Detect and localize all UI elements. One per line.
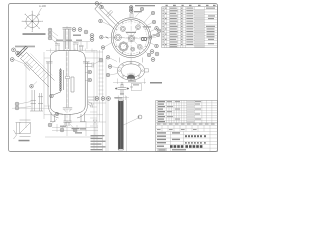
dimension tick ladder right [99, 62, 104, 94]
gasket strip leader [124, 118, 139, 125]
top view rim bolt dots [114, 20, 149, 55]
head tangent reference line [46, 49, 97, 54]
chute hatch [23, 55, 49, 81]
title block upper row rules [156, 103, 218, 121]
leader lines vessel [14, 31, 100, 129]
chute vertical extension line [25, 61, 27, 128]
vessel centerline [66, 26, 68, 127]
detail A plate [14, 120, 31, 139]
parts list material cells [195, 10, 204, 48]
rosette caption text [23, 33, 46, 35]
note text line2 [15, 46, 35, 48]
elevation dimension balloons bottom [95, 97, 110, 101]
parts list header labels above grid [166, 5, 216, 6]
parts list name text smudges [170, 8, 178, 48]
top dimension line [54, 31, 90, 49]
top view top nozzle balloons [130, 6, 133, 13]
svg-text:A-100: A-100 [39, 4, 46, 8]
top nozzle stem [130, 14, 133, 18]
flange detail B ellipses [117, 61, 144, 80]
parts list qty smudges [162, 8, 182, 46]
company name blocks [170, 145, 202, 148]
top nozzle N1 [55, 44, 60, 51]
rosette arrow tips [32, 21, 33, 22]
top view dimension ticks left [106, 36, 109, 39]
dimension text smudges vessel [56, 35, 86, 134]
label box circle [131, 86, 133, 88]
gasket strip top dimension [114, 96, 129, 101]
secondary number digits [185, 142, 206, 144]
gasket strip detail column [118, 100, 123, 150]
left dimension line [44, 52, 63, 119]
internal sparger circles column [53, 68, 64, 95]
top view leader lines [102, 11, 156, 54]
title block signature smudges [157, 124, 215, 131]
nozzle circle west [115, 34, 122, 41]
flange detail B dimension [113, 79, 146, 85]
support leg left [50, 113, 56, 122]
sparger balloon digit [51, 95, 52, 96]
title block upper material fills [187, 101, 194, 123]
top view centerlines [107, 13, 156, 61]
title block lower row rules [156, 132, 218, 152]
top view balloons ring [95, 2, 161, 57]
gasket strip extension line [126, 96, 128, 152]
flange detail B center boss [127, 75, 135, 79]
valve arm end dots [115, 88, 129, 90]
nozzle circle north-west [120, 26, 125, 31]
parts list column rules [164, 7, 204, 48]
note text right middle [150, 82, 162, 84]
center shaft circles [128, 35, 135, 42]
CAD box [158, 149, 187, 152]
radial spokes [118, 27, 143, 47]
parts list table frame [162, 7, 218, 48]
nozzle circle south-east [137, 44, 142, 49]
sheet border frame [9, 4, 218, 152]
label box text [133, 84, 139, 85]
detail A caption [19, 140, 30, 142]
bottom outlet nozzle [64, 115, 72, 127]
note text under fitting [115, 97, 123, 98]
chute flange bolts [20, 48, 25, 53]
balloon under chute [30, 85, 34, 89]
flange detail B bolts [119, 62, 144, 80]
jacket piping assembly lower-left [30, 90, 43, 111]
label box right [132, 83, 142, 91]
balloons bottom left of vessel [15, 102, 77, 132]
title block outer frame [156, 100, 218, 151]
top nozzle N4 [79, 45, 84, 50]
balloons right of circle lower [150, 50, 159, 62]
title block mid divider [156, 122, 218, 124]
inclined chute nozzle [21, 53, 55, 88]
flange detail B boss hatch [128, 73, 134, 77]
balloons right side of shell [88, 70, 92, 82]
top view annotation text [134, 11, 142, 12]
title block upper value smudges [167, 101, 201, 120]
note text bottom middle [91, 135, 105, 136]
center text smudge [126, 32, 136, 33]
sparger balloon [50, 94, 54, 98]
top nozzle N2 (center large) [63, 27, 72, 50]
top view dimension ticks right [149, 35, 152, 39]
side nozzle right upper [85, 63, 93, 68]
nozzle circle south [131, 47, 135, 51]
nozzle orientation rosette [23, 12, 41, 30]
top nozzle tiny circle [131, 12, 133, 14]
vessel shell and heads [50, 51, 85, 115]
bottom dimension lines [45, 121, 98, 137]
flange detail B right tab [145, 69, 149, 72]
title block upper label smudges [158, 101, 165, 122]
internal dip pipe [71, 77, 74, 92]
balloon left chute [10, 48, 19, 62]
flange detail B balloons [106, 56, 112, 77]
nozzle circle north-east [136, 25, 141, 30]
flange detail B neck lines [120, 58, 143, 63]
small valve fitting [117, 83, 127, 95]
twin nozzles east [141, 38, 147, 41]
rosette label A-line [37, 8, 42, 17]
parts list remark smudges [206, 8, 215, 45]
drawing sheet background [0, 0, 220, 156]
bottom-left horizontal dim line [12, 107, 50, 109]
top nozzle N3 [73, 43, 79, 51]
manhole circle [119, 42, 128, 51]
balloons above nozzles [72, 28, 94, 42]
weld symbol [93, 120, 97, 124]
balloon digits [12, 3, 160, 131]
agitator shaft [63, 51, 72, 112]
vessel front view: jacket outer shell [48, 62, 88, 118]
annotation right top of ellipse [128, 81, 136, 82]
balloon stack top-left [48, 28, 52, 40]
jacket fitting right [88, 102, 94, 108]
jacket closure rings [46, 62, 90, 64]
parts list horizontal rules [162, 9, 218, 45]
top view chute band [95, 2, 119, 29]
balloon right nozzle [99, 58, 103, 62]
top view main flange circle [111, 18, 151, 58]
title block upper column rules [157, 100, 212, 123]
right dimension lines [70, 50, 106, 152]
rosette spoke tip dots [22, 11, 43, 32]
elevation dimension verticals [94, 50, 108, 152]
side nozzle right lower [88, 96, 96, 101]
chute parallel dimension line [31, 54, 53, 76]
gasket strip balloon [138, 115, 142, 119]
flange detail B leaders [110, 58, 121, 75]
gasket strip zigzag hatch [118, 101, 123, 149]
balloon under chute leader [33, 82, 37, 86]
top view bolt circle dashed [115, 22, 147, 54]
drawing number digit boxes [185, 135, 206, 137]
support leg right [80, 113, 86, 122]
balloon under chute digit [31, 86, 32, 87]
parts list matl-no digits [186, 8, 193, 45]
top view chute hatch [98, 7, 118, 27]
title block signature cells [156, 123, 218, 132]
title block lower label smudges [157, 132, 180, 147]
